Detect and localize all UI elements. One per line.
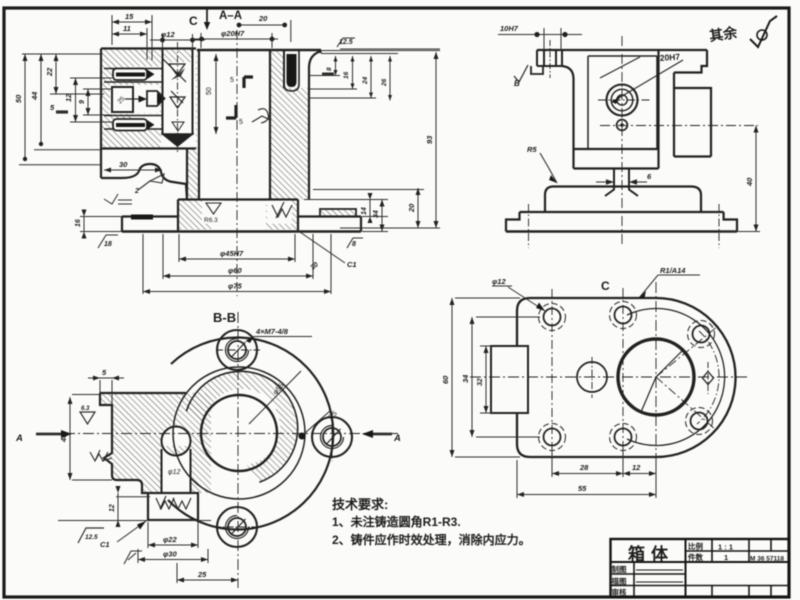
dim 16 left of base [80, 217, 122, 232]
view 3 annotations [15, 327, 401, 583]
drain tube [605, 169, 638, 197]
bore finish mark [252, 109, 270, 123]
small hole mid-left [577, 362, 607, 392]
svg-text:12.5: 12.5 [85, 534, 98, 541]
svg-text:60: 60 [441, 375, 450, 384]
svg-text:φ30: φ30 [163, 550, 177, 559]
svg-text:φ45H7: φ45H7 [220, 249, 244, 258]
small bore circle phi12 [162, 427, 191, 456]
left lower profile boot [101, 164, 187, 200]
plate outline [517, 298, 736, 457]
svg-text:φ12: φ12 [492, 277, 506, 286]
svg-text:8: 8 [326, 67, 333, 71]
svg-text:20: 20 [407, 203, 416, 213]
svg-text:φ60: φ60 [228, 266, 242, 275]
svg-text:1、未注铸造圆角R1-R3.: 1、未注铸造圆角R1-R3. [332, 514, 461, 529]
dim 55 bottom [517, 460, 656, 498]
inner step arc [627, 309, 725, 446]
right boss cross tick [331, 414, 333, 461]
bolt hole 6 [691, 413, 708, 430]
bolt hole centerlines on base [529, 204, 720, 248]
pedestal w-mark [272, 202, 292, 218]
flag 18 below base [98, 235, 118, 248]
leader second tick [600, 57, 640, 78]
small hole center dot [620, 123, 623, 126]
dim 30 lower left [104, 169, 162, 171]
svg-text:20: 20 [258, 14, 268, 23]
body left edge [562, 66, 574, 149]
dim 6 drain tube [596, 181, 647, 183]
cylinder top edge [197, 49, 321, 51]
hatch bore annulus band [186, 371, 297, 482]
bore spoke upper [656, 350, 683, 377]
bottom boss hole [228, 518, 246, 536]
small hole centerline to right dim [600, 125, 758, 127]
bullet plug [147, 91, 165, 106]
roughness check symbol [750, 16, 777, 47]
svg-text:9: 9 [79, 100, 86, 104]
strip finish triangle 3 [172, 122, 184, 131]
svg-text:制图: 制图 [612, 564, 627, 574]
central bore circle [618, 339, 694, 415]
svg-text:A: A [393, 433, 401, 444]
left dim chain line x41 [34, 54, 101, 150]
right finish triangle 12.5 [337, 38, 355, 47]
dim phi45H7 [179, 234, 295, 262]
svg-text:A: A [15, 433, 23, 444]
svg-text:C1: C1 [347, 260, 357, 269]
small square boss [112, 87, 133, 112]
diamond centerline [707, 362, 709, 394]
big bore circle inner [617, 95, 627, 105]
svg-text:8: 8 [352, 241, 356, 248]
finish check 12.5 [78, 528, 104, 543]
dim 11 top [112, 28, 147, 60]
right tapped hole outline [284, 51, 299, 91]
bore depth dim line [215, 54, 217, 134]
svg-text:28: 28 [579, 463, 589, 472]
svg-text:93: 93 [425, 135, 434, 144]
svg-text:φ20H7: φ20H7 [221, 29, 245, 38]
bottom boss outer [217, 507, 257, 547]
horizontal centerline [45, 433, 398, 435]
strip finish triangle 1 [169, 64, 185, 75]
dim 20 top [239, 20, 291, 42]
pedestal outline [178, 200, 298, 232]
top boss hole [228, 341, 246, 359]
view 2 dimensions [313, 24, 760, 232]
dim 10H7 top [498, 28, 582, 50]
svg-text:12: 12 [64, 93, 73, 102]
svg-text:2、铸件应作时效处理，消除内应力。: 2、铸件应作时效处理，消除内应力。 [332, 532, 531, 547]
vertical centerline [621, 36, 623, 246]
strip finish triangle 2 [170, 91, 185, 108]
left boss rectangle [491, 346, 528, 413]
top boss cross tick [216, 349, 260, 351]
dim phi30 [138, 549, 208, 563]
svg-text:件数: 件数 [688, 552, 703, 562]
right foot pad outline [320, 209, 356, 217]
section cut arrow C [206, 9, 208, 24]
svg-text:描图: 描图 [612, 576, 627, 586]
svg-text:1: 1 [724, 553, 728, 562]
radial leader phi55 [249, 371, 301, 424]
hatch right foot pad [320, 209, 356, 217]
svg-text:4×M7-4/8: 4×M7-4/8 [255, 327, 289, 336]
bell top [545, 187, 701, 213]
svg-text:5: 5 [239, 119, 243, 126]
annulus outer arc edge [186, 371, 297, 482]
base bottom edge [506, 230, 737, 233]
dim 5 top left [88, 378, 124, 405]
cylinder outer left wall [186, 149, 188, 200]
svg-text:φ12: φ12 [168, 469, 180, 476]
finish triangle 6.3 [80, 412, 95, 424]
vertical centerline [237, 312, 239, 588]
stud 1 body [113, 69, 147, 81]
foot w-mark 2 [173, 498, 191, 509]
base right strip [298, 217, 361, 232]
cylinder bore left wall [198, 51, 200, 200]
svg-text:C: C [189, 14, 198, 28]
right boss outer [312, 417, 352, 457]
svg-text:25: 25 [197, 570, 207, 579]
dim 34 left [472, 317, 540, 437]
thick dash dim 5 [56, 110, 68, 113]
left label column divider [633, 562, 635, 597]
pin leader [305, 411, 330, 433]
base plate [506, 212, 737, 232]
svg-text:1 : 1: 1 : 1 [718, 543, 733, 552]
title block outer box [611, 539, 790, 597]
hatch left block [101, 49, 197, 394]
horizontal row line right top [686, 550, 790, 552]
finish marks near left wall [104, 194, 132, 204]
hatch left block [100, 393, 211, 493]
left tab [537, 50, 562, 66]
inner face rect [588, 56, 657, 149]
leader R5 bell corner [540, 153, 557, 183]
base plate bottom [122, 230, 361, 232]
diagonal centerline to hole 6 [656, 377, 716, 430]
stud hole 1 outline [104, 69, 162, 83]
dim 32 left boss [480, 346, 493, 413]
small diamond hole [703, 372, 714, 385]
body bottom edge [574, 148, 659, 150]
chamfer leader C1 [297, 230, 345, 263]
stud 2 body [113, 119, 147, 131]
svg-text:B: B [514, 79, 520, 88]
bore horizontal centerline [598, 99, 650, 101]
dim 25 [177, 563, 238, 583]
bolt hole 3 [544, 429, 561, 446]
right boss hole [323, 428, 341, 446]
svg-text:A–A: A–A [219, 10, 242, 22]
neck slab [574, 149, 659, 169]
cylinder centerline [236, 30, 238, 296]
strip centerline [177, 42, 179, 152]
svg-text:16: 16 [75, 219, 82, 227]
vertical centerline main [655, 282, 657, 470]
snap ring mark lower [226, 105, 236, 118]
dim phi60 [163, 234, 313, 279]
svg-text:10H7: 10H7 [500, 24, 519, 33]
vertical divider cells top [712, 539, 771, 562]
bore spoke lower [641, 377, 656, 412]
svg-text:技术要求:: 技术要求: [332, 497, 388, 512]
leader from label to bore [612, 60, 683, 102]
base left strip [122, 217, 178, 232]
svg-text:比例: 比例 [688, 541, 703, 551]
svg-text:24: 24 [362, 76, 369, 85]
horizontal centerline [470, 376, 748, 378]
hatch cylinder left wall [187, 149, 199, 200]
tapped hole strip walls [163, 49, 193, 136]
svg-text:50: 50 [14, 94, 23, 103]
horizontal row line mid [611, 561, 790, 563]
left dim chain line x88 [83, 89, 112, 115]
flag label 2 [138, 174, 164, 190]
left pad bar [131, 215, 153, 220]
right outer wall [309, 50, 321, 200]
svg-text:34: 34 [461, 374, 470, 383]
bottom row cell dividers [712, 586, 771, 598]
svg-text:C1: C1 [100, 540, 110, 549]
pedestal symbol window left [202, 201, 224, 224]
triangle 8 below right base [347, 238, 363, 248]
hatch pedestal right [266, 200, 298, 230]
hatch cylinder right wall [270, 51, 308, 200]
svg-text:26: 26 [381, 78, 388, 87]
outer profile arc [168, 337, 333, 529]
dim phi75 [143, 234, 331, 294]
svg-text:C: C [601, 279, 610, 293]
dim 12 foot height [58, 493, 211, 521]
bolt hole 1 [544, 309, 561, 326]
dim phi20H7 [193, 33, 278, 48]
foot block [148, 493, 198, 520]
svg-text:22: 22 [45, 67, 54, 77]
finish symbol B [514, 65, 528, 82]
svg-text:15: 15 [125, 12, 134, 21]
bolt hole 2 [615, 307, 632, 324]
bolt circle arc [697, 331, 719, 424]
svg-text:φ75: φ75 [228, 282, 242, 291]
view 1 dimensions [14, 12, 440, 294]
top boss outer [217, 330, 257, 370]
w marks left edge [90, 450, 108, 461]
svg-text:B-B: B-B [213, 310, 236, 325]
stud hole 2 outline [104, 116, 162, 130]
dim 40 left [70, 395, 112, 481]
svg-text:16: 16 [343, 71, 350, 79]
svg-text:M 36 57118: M 36 57118 [750, 556, 784, 563]
small hole below [617, 120, 628, 131]
svg-text:55: 55 [578, 484, 587, 493]
left rows lines [611, 574, 790, 586]
pedestal finish triangle [206, 203, 221, 214]
left block outline [100, 393, 186, 493]
vertical centerline bolt col 1 [551, 289, 553, 455]
svg-text:32: 32 [477, 378, 484, 386]
svg-text:审核: 审核 [612, 587, 627, 597]
svg-text:φ12: φ12 [161, 30, 175, 39]
thick dash right [322, 73, 334, 76]
svg-text:30: 30 [119, 160, 128, 169]
dim 15 top [112, 15, 152, 60]
left dim chain line x56 [50, 54, 104, 94]
svg-text:φ22: φ22 [163, 535, 177, 544]
hatch pedestal left [178, 200, 211, 230]
extra finish check [124, 551, 142, 564]
left dim chain line x75 [70, 78, 112, 122]
svg-text:5: 5 [230, 77, 234, 84]
bottom boss thread arc [226, 516, 249, 539]
svg-text:6.3: 6.3 [81, 406, 90, 412]
stem walls [162, 449, 191, 493]
dim 60 left [452, 298, 520, 457]
vertical centerline bolt col 2 [622, 288, 624, 455]
central bore circle [201, 395, 277, 471]
dim 14 right side [304, 200, 388, 232]
right upper small dims [309, 51, 440, 101]
body right edge [657, 50, 659, 149]
cylinder bore right wall [269, 51, 271, 200]
bearing boss right [674, 73, 711, 157]
diagonal centerline to hole 5 [656, 326, 718, 377]
hook notch under tab [531, 66, 543, 74]
svg-text:2: 2 [134, 188, 139, 195]
svg-text:12: 12 [632, 463, 641, 472]
pin dot on ring [299, 433, 306, 440]
cylinder outer right wall upper [283, 51, 285, 88]
foot w-mark 1 [156, 496, 174, 509]
signature line 2 [636, 581, 683, 583]
svg-text:R5: R5 [527, 145, 537, 154]
svg-text:12: 12 [109, 504, 116, 512]
bottom boss cross tick [214, 526, 260, 528]
dim 20 left [313, 188, 424, 228]
dim phi22 [148, 522, 198, 548]
flange ring circle [173, 367, 305, 499]
svg-text:R1/A14: R1/A14 [660, 266, 686, 275]
body top edge [537, 49, 707, 51]
svg-text:50: 50 [206, 87, 213, 95]
tab centerline [549, 40, 551, 78]
dim phi12 strip [150, 34, 205, 48]
view 4 dimensions [441, 266, 700, 498]
strip leader diagonal [163, 59, 186, 82]
top boss thread arc [226, 339, 249, 362]
signature line 1 [636, 569, 683, 571]
svg-text:R6.3: R6.3 [204, 217, 218, 224]
svg-text:44: 44 [30, 91, 39, 101]
right tapped hole dark bar [287, 54, 297, 87]
dim 28 bottom [552, 448, 656, 477]
svg-text:12.5: 12.5 [339, 39, 353, 46]
bolt hole 5 [693, 326, 710, 343]
hatch strip top [163, 49, 193, 63]
dim 93 left [340, 49, 440, 228]
svg-text:40: 40 [59, 433, 68, 443]
snap ring mark upper [244, 77, 253, 88]
left block outline [101, 49, 196, 179]
bolt hole 4 [615, 429, 632, 446]
svg-text:34: 34 [373, 210, 380, 218]
pedestal symbol window right [267, 201, 292, 224]
svg-text:11: 11 [123, 24, 131, 33]
dim 40 right [720, 126, 760, 232]
dim 12 bottom [623, 471, 656, 476]
dim 34 right side [381, 200, 383, 232]
svg-text:18: 18 [104, 241, 112, 248]
small hole centerline [591, 357, 593, 398]
big bore circle outer [607, 85, 638, 116]
bullet plug arrow [125, 98, 140, 100]
left dim chain line x25 [19, 54, 101, 165]
right boss thread arc [321, 426, 344, 449]
big bore circle middle [611, 89, 633, 111]
vertical divider main [685, 539, 687, 597]
hook notch top right [674, 50, 707, 73]
svg-text:40: 40 [745, 177, 754, 187]
svg-text:20H7: 20H7 [659, 52, 680, 63]
svg-text:14: 14 [361, 207, 368, 215]
